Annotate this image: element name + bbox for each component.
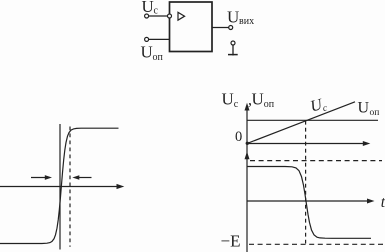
wire comparator output — [212, 27, 229, 29]
comparator U1 body — [170, 2, 213, 52]
threshold dashed line (left graph) — [69, 127, 71, 247]
label Uop (input) — [141, 43, 164, 64]
-E dashed level line — [249, 243, 385, 245]
comma separator — [248, 92, 252, 109]
t axis — [247, 199, 375, 204]
svg-text:−E: −E — [221, 232, 241, 251]
terminal Uc — [145, 14, 149, 18]
crossing dashed vertical line — [305, 121, 307, 244]
convergence arrow left — [31, 175, 52, 180]
transfer characteristic curve — [0, 128, 119, 243]
label -E — [221, 232, 241, 251]
svg-text:U: U — [252, 90, 264, 109]
svg-text:U: U — [141, 43, 153, 62]
svg-text:U: U — [227, 7, 239, 26]
label Uop (axis) — [252, 90, 275, 111]
svg-text:оп: оп — [264, 99, 275, 110]
ground — [228, 41, 238, 56]
svg-text:оп: оп — [370, 108, 380, 118]
top horizontal axis — [247, 141, 370, 146]
inverting input circle on comparator edge — [168, 14, 172, 18]
wire Uop to comparator — [149, 38, 170, 40]
svg-text:c: c — [234, 99, 239, 110]
terminal Uop — [145, 37, 149, 41]
label Uvyh (output) — [227, 7, 254, 27]
right graph vertical axis — [245, 103, 250, 252]
Uop level line — [247, 119, 378, 121]
label Uop (right of ramp) — [358, 100, 380, 119]
label Uc (axis) — [222, 90, 239, 111]
ramp Uc — [246, 102, 355, 145]
svg-text:t: t — [381, 194, 385, 211]
svg-text:U: U — [222, 90, 234, 109]
left graph vertical axis — [59, 124, 61, 250]
label Uc (on ramp) — [309, 95, 329, 117]
wire Uc to comparator — [149, 15, 168, 17]
convergence arrow right — [72, 175, 91, 180]
lower subplot axis arrowhead — [245, 152, 250, 160]
svg-text:0: 0 — [235, 129, 242, 145]
left graph horizontal axis — [0, 184, 124, 189]
terminal Uvyh — [229, 26, 233, 30]
output voltage curve — [248, 167, 372, 239]
+E dashed level line — [250, 160, 382, 162]
svg-text:U: U — [358, 100, 370, 117]
label 0 (origin) — [235, 129, 242, 145]
svg-text:U: U — [142, 0, 154, 16]
svg-text:оп: оп — [153, 52, 164, 63]
label t — [381, 194, 385, 211]
svg-text:вих: вих — [239, 16, 254, 27]
op-amp triangle symbol — [178, 12, 185, 20]
label Uc (input) — [142, 0, 159, 17]
svg-text:c: c — [154, 6, 159, 17]
